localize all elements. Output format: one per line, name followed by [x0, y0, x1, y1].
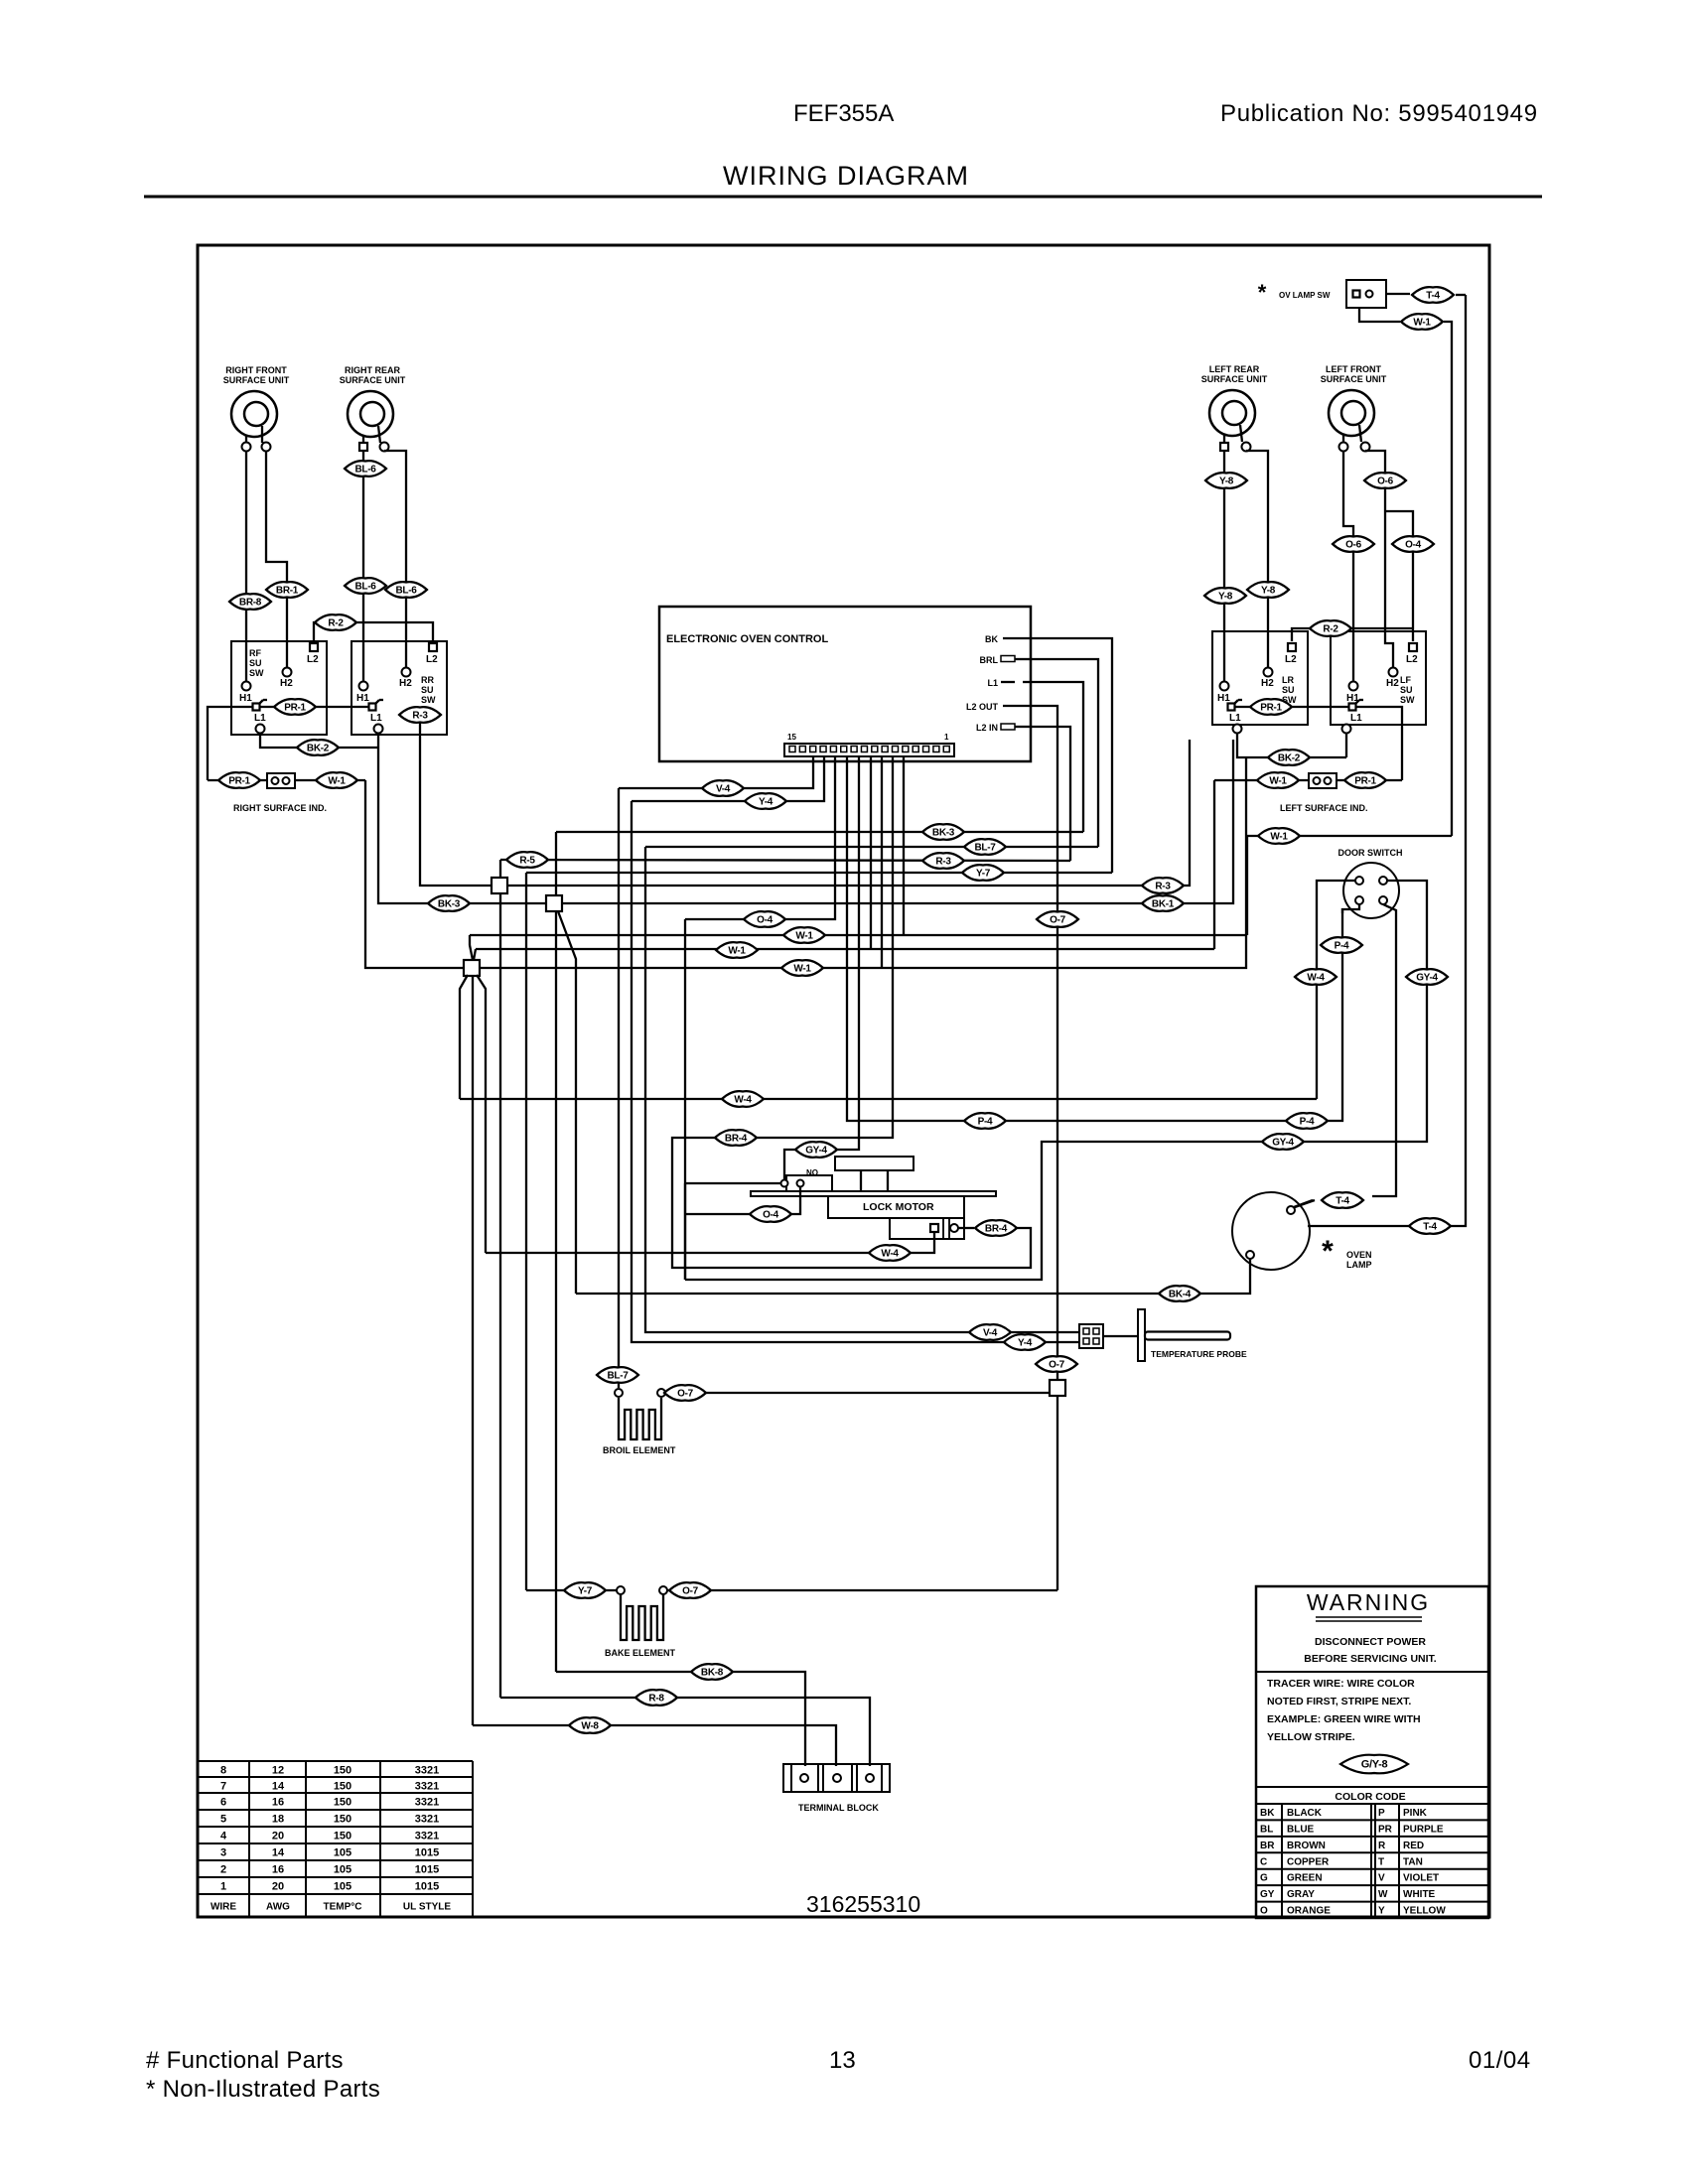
- svg-text:L1: L1: [254, 713, 266, 724]
- svg-text:T-4: T-4: [1426, 291, 1440, 302]
- svg-text:BK-3: BK-3: [932, 828, 955, 839]
- svg-text:L1: L1: [1229, 713, 1241, 724]
- svg-text:RIGHT REAR: RIGHT REAR: [345, 365, 401, 375]
- svg-text:T-4: T-4: [1336, 1196, 1349, 1207]
- svg-text:BEFORE SERVICING UNIT.: BEFORE SERVICING UNIT.: [1304, 1653, 1436, 1665]
- svg-text:RIGHT FRONT: RIGHT FRONT: [225, 365, 287, 375]
- svg-text:G: G: [1260, 1873, 1268, 1884]
- svg-text:L2: L2: [307, 654, 319, 665]
- svg-text:Y-8: Y-8: [1261, 586, 1276, 597]
- svg-text:BK-3: BK-3: [438, 899, 461, 910]
- svg-text:BROWN: BROWN: [1287, 1841, 1326, 1851]
- svg-text:GY-4: GY-4: [805, 1146, 827, 1157]
- svg-text:FEF355A: FEF355A: [793, 100, 894, 127]
- svg-text:ORANGE: ORANGE: [1287, 1906, 1331, 1917]
- svg-text:T: T: [1378, 1856, 1384, 1867]
- svg-text:RF: RF: [249, 648, 261, 658]
- svg-text:COPPER: COPPER: [1287, 1856, 1330, 1867]
- svg-text:*: *: [1322, 1235, 1334, 1268]
- svg-text:V: V: [1378, 1873, 1385, 1884]
- svg-text:150: 150: [334, 1797, 352, 1809]
- svg-text:BL-6: BL-6: [354, 465, 376, 476]
- svg-text:Y: Y: [1378, 1906, 1385, 1917]
- svg-text:PURPLE: PURPLE: [1403, 1824, 1444, 1835]
- svg-text:NO: NO: [806, 1168, 818, 1177]
- svg-text:* Non-Ilustrated Parts: * Non-Ilustrated Parts: [146, 2076, 380, 2103]
- svg-text:GY-4: GY-4: [1272, 1138, 1294, 1149]
- svg-text:W-1: W-1: [728, 946, 746, 957]
- svg-text:LEFT FRONT: LEFT FRONT: [1326, 364, 1381, 374]
- svg-text:BR-8: BR-8: [239, 598, 262, 609]
- svg-text:W-1: W-1: [1413, 318, 1431, 329]
- svg-text:Y-7: Y-7: [578, 1586, 593, 1597]
- svg-text:H2: H2: [1261, 678, 1274, 689]
- svg-text:LF: LF: [1400, 675, 1411, 685]
- svg-text:Y-8: Y-8: [1219, 477, 1234, 487]
- svg-text:YELLOW: YELLOW: [1403, 1906, 1446, 1917]
- svg-text:W-1: W-1: [1270, 832, 1288, 843]
- svg-text:TERMINAL BLOCK: TERMINAL BLOCK: [798, 1803, 879, 1813]
- svg-text:Y-4: Y-4: [759, 797, 774, 808]
- svg-text:H2: H2: [280, 678, 293, 689]
- svg-text:6: 6: [220, 1797, 226, 1809]
- svg-text:1: 1: [220, 1881, 226, 1893]
- svg-text:O-7: O-7: [677, 1389, 694, 1400]
- svg-text:R-3: R-3: [1155, 882, 1171, 892]
- svg-text:L2 IN: L2 IN: [976, 723, 998, 733]
- svg-text:13: 13: [829, 2047, 856, 2074]
- svg-text:SW: SW: [421, 695, 436, 705]
- svg-text:105: 105: [334, 1881, 352, 1893]
- svg-text:L2 OUT: L2 OUT: [966, 702, 999, 712]
- svg-text:C: C: [1260, 1856, 1267, 1867]
- svg-text:L1: L1: [370, 713, 382, 724]
- svg-text:W-4: W-4: [1307, 973, 1325, 984]
- svg-text:14: 14: [272, 1847, 285, 1859]
- svg-text:GREEN: GREEN: [1287, 1873, 1323, 1884]
- svg-text:SU: SU: [421, 685, 434, 695]
- svg-text:GRAY: GRAY: [1287, 1889, 1315, 1900]
- svg-text:L2: L2: [426, 654, 438, 665]
- svg-text:3321: 3321: [415, 1814, 439, 1826]
- svg-text:V-4: V-4: [983, 1328, 998, 1339]
- svg-text:R-2: R-2: [328, 618, 344, 629]
- svg-text:LEFT SURFACE IND.: LEFT SURFACE IND.: [1280, 803, 1368, 813]
- svg-text:20: 20: [272, 1831, 284, 1843]
- svg-text:PINK: PINK: [1403, 1808, 1428, 1819]
- svg-text:PR-1: PR-1: [284, 703, 306, 714]
- svg-text:BLUE: BLUE: [1287, 1824, 1315, 1835]
- svg-text:W-1: W-1: [1269, 776, 1287, 787]
- svg-text:SU: SU: [249, 658, 262, 668]
- svg-text:150: 150: [334, 1765, 352, 1777]
- svg-text:BL-7: BL-7: [974, 843, 996, 854]
- svg-text:Y-8: Y-8: [1218, 592, 1233, 603]
- svg-text:BR-4: BR-4: [985, 1224, 1008, 1235]
- svg-text:SW: SW: [249, 668, 264, 678]
- svg-text:Publication No: 5995401949: Publication No: 5995401949: [1220, 100, 1538, 127]
- svg-text:RED: RED: [1403, 1841, 1424, 1851]
- svg-text:BK-1: BK-1: [1152, 899, 1175, 910]
- svg-text:3321: 3321: [415, 1797, 439, 1809]
- svg-text:TEMPERATURE PROBE: TEMPERATURE PROBE: [1151, 1349, 1247, 1359]
- svg-text:150: 150: [334, 1781, 352, 1793]
- svg-text:O-7: O-7: [682, 1586, 699, 1597]
- svg-text:P-4: P-4: [1300, 1117, 1315, 1128]
- svg-text:PR-1: PR-1: [228, 776, 250, 787]
- svg-text:BK: BK: [985, 634, 998, 644]
- svg-text:H1: H1: [356, 693, 369, 704]
- svg-text:V-4: V-4: [716, 784, 731, 795]
- svg-text:150: 150: [334, 1814, 352, 1826]
- svg-text:BL: BL: [1260, 1824, 1273, 1835]
- svg-text:W-1: W-1: [793, 964, 811, 975]
- svg-text:SU: SU: [1282, 685, 1295, 695]
- svg-text:W-1: W-1: [328, 776, 346, 787]
- svg-text:SW: SW: [1400, 695, 1415, 705]
- svg-text:BK-8: BK-8: [701, 1668, 724, 1679]
- svg-text:BR-4: BR-4: [725, 1134, 748, 1145]
- svg-text:3: 3: [220, 1847, 226, 1859]
- svg-text:NOTED FIRST, STRIPE NEXT.: NOTED FIRST, STRIPE NEXT.: [1267, 1696, 1411, 1707]
- svg-text:BK-2: BK-2: [1278, 753, 1301, 764]
- svg-text:TAN: TAN: [1403, 1856, 1423, 1867]
- svg-text:14: 14: [272, 1781, 285, 1793]
- svg-text:UL STYLE: UL STYLE: [403, 1902, 451, 1913]
- svg-text:BL-6: BL-6: [395, 586, 417, 597]
- svg-text:1015: 1015: [415, 1847, 439, 1859]
- svg-text:105: 105: [334, 1864, 352, 1876]
- svg-text:WARNING: WARNING: [1307, 1589, 1430, 1615]
- svg-text:Y-7: Y-7: [976, 869, 991, 880]
- svg-text:R: R: [1378, 1841, 1386, 1851]
- svg-text:BR-1: BR-1: [276, 586, 299, 597]
- svg-text:TRACER WIRE: WIRE COLOR: TRACER WIRE: WIRE COLOR: [1267, 1678, 1415, 1690]
- svg-text:R-8: R-8: [648, 1694, 664, 1705]
- svg-text:YELLOW STRIPE.: YELLOW STRIPE.: [1267, 1731, 1355, 1743]
- svg-text:LR: LR: [1282, 675, 1294, 685]
- svg-text:L2: L2: [1406, 654, 1418, 665]
- svg-text:EXAMPLE: GREEN WIRE WITH: EXAMPLE: GREEN WIRE WITH: [1267, 1713, 1421, 1725]
- svg-text:R-2: R-2: [1323, 624, 1338, 635]
- svg-text:DISCONNECT POWER: DISCONNECT POWER: [1315, 1636, 1426, 1648]
- svg-text:BROIL ELEMENT: BROIL ELEMENT: [603, 1445, 676, 1455]
- svg-text:18: 18: [272, 1814, 284, 1826]
- svg-text:O-7: O-7: [1050, 915, 1066, 926]
- svg-text:PR-1: PR-1: [1260, 703, 1282, 714]
- svg-text:1015: 1015: [415, 1881, 439, 1893]
- svg-text:BRL: BRL: [980, 655, 999, 665]
- svg-text:H1: H1: [239, 693, 252, 704]
- svg-text:OV LAMP SW: OV LAMP SW: [1279, 291, 1331, 300]
- svg-text:150: 150: [334, 1831, 352, 1843]
- svg-text:R-3: R-3: [412, 711, 428, 722]
- svg-text:8: 8: [220, 1765, 226, 1777]
- svg-text:SURFACE UNIT: SURFACE UNIT: [1201, 374, 1268, 384]
- svg-text:DOOR SWITCH: DOOR SWITCH: [1338, 848, 1403, 858]
- svg-text:2: 2: [220, 1864, 226, 1876]
- svg-text:# Functional Parts: # Functional Parts: [146, 2047, 344, 2074]
- svg-text:L1: L1: [1350, 713, 1362, 724]
- svg-text:12: 12: [272, 1765, 284, 1777]
- svg-text:20: 20: [272, 1881, 284, 1893]
- svg-text:RR: RR: [421, 675, 434, 685]
- svg-text:*: *: [1258, 280, 1267, 305]
- svg-text:W-4: W-4: [734, 1095, 752, 1106]
- svg-text:SURFACE UNIT: SURFACE UNIT: [1321, 374, 1387, 384]
- svg-text:GY-4: GY-4: [1416, 973, 1438, 984]
- svg-text:P-4: P-4: [978, 1117, 993, 1128]
- svg-text:O-4: O-4: [1405, 540, 1422, 551]
- svg-text:LEFT REAR: LEFT REAR: [1209, 364, 1260, 374]
- svg-text:O-6: O-6: [1377, 477, 1394, 487]
- svg-text:7: 7: [220, 1781, 226, 1793]
- svg-text:L1: L1: [987, 678, 998, 688]
- svg-text:3321: 3321: [415, 1781, 439, 1793]
- svg-text:O-6: O-6: [1345, 540, 1362, 551]
- svg-text:COLOR CODE: COLOR CODE: [1335, 1791, 1405, 1803]
- svg-text:H2: H2: [1386, 678, 1399, 689]
- svg-text:LOCK MOTOR: LOCK MOTOR: [863, 1201, 934, 1213]
- svg-text:O: O: [1260, 1906, 1268, 1917]
- svg-text:4: 4: [220, 1831, 227, 1843]
- svg-text:3321: 3321: [415, 1765, 439, 1777]
- svg-text:H1: H1: [1217, 693, 1230, 704]
- svg-text:16: 16: [272, 1864, 284, 1876]
- svg-text:PR-1: PR-1: [1354, 776, 1376, 787]
- svg-text:316255310: 316255310: [806, 1891, 920, 1917]
- svg-text:1015: 1015: [415, 1864, 439, 1876]
- svg-text:OVEN: OVEN: [1346, 1250, 1372, 1260]
- svg-text:SURFACE UNIT: SURFACE UNIT: [340, 375, 406, 385]
- svg-text:O-4: O-4: [763, 1210, 779, 1221]
- svg-text:BL-7: BL-7: [607, 1371, 629, 1382]
- svg-text:T-4: T-4: [1423, 1222, 1437, 1233]
- svg-text:P-4: P-4: [1335, 941, 1349, 952]
- svg-text:01/04: 01/04: [1469, 2047, 1531, 2074]
- svg-text:SU: SU: [1400, 685, 1413, 695]
- svg-text:O-7: O-7: [1049, 1360, 1065, 1371]
- svg-text:BK-4: BK-4: [1169, 1290, 1192, 1300]
- svg-text:WHITE: WHITE: [1403, 1889, 1436, 1900]
- svg-text:RIGHT SURFACE IND.: RIGHT SURFACE IND.: [233, 803, 327, 813]
- svg-text:VIOLET: VIOLET: [1403, 1873, 1439, 1884]
- svg-text:W-4: W-4: [881, 1249, 899, 1260]
- svg-text:WIRE: WIRE: [211, 1902, 236, 1913]
- svg-text:1: 1: [944, 733, 949, 742]
- svg-text:BR: BR: [1260, 1841, 1275, 1851]
- svg-text:Y-4: Y-4: [1018, 1338, 1033, 1349]
- svg-text:G/Y-8: G/Y-8: [1361, 1759, 1388, 1771]
- svg-text:SURFACE UNIT: SURFACE UNIT: [223, 375, 290, 385]
- svg-text:3321: 3321: [415, 1831, 439, 1843]
- svg-text:105: 105: [334, 1847, 352, 1859]
- svg-text:BLACK: BLACK: [1287, 1808, 1323, 1819]
- svg-text:P: P: [1378, 1808, 1385, 1819]
- svg-text:L2: L2: [1285, 654, 1297, 665]
- svg-text:WIRING DIAGRAM: WIRING DIAGRAM: [723, 161, 969, 191]
- svg-text:BAKE ELEMENT: BAKE ELEMENT: [605, 1648, 676, 1658]
- svg-text:TEMP°C: TEMP°C: [324, 1902, 362, 1913]
- svg-text:ELECTRONIC OVEN CONTROL: ELECTRONIC OVEN CONTROL: [666, 633, 828, 645]
- svg-text:5: 5: [220, 1814, 226, 1826]
- svg-text:W-1: W-1: [795, 931, 813, 942]
- svg-text:BK-2: BK-2: [307, 744, 330, 754]
- svg-text:H2: H2: [399, 678, 412, 689]
- svg-text:GY: GY: [1260, 1889, 1275, 1900]
- svg-text:15: 15: [787, 733, 796, 742]
- svg-text:O-4: O-4: [757, 915, 774, 926]
- svg-text:PR: PR: [1378, 1824, 1393, 1835]
- svg-text:R-5: R-5: [519, 856, 535, 867]
- svg-text:R-3: R-3: [935, 857, 951, 868]
- svg-text:W: W: [1378, 1889, 1388, 1900]
- svg-text:BL-6: BL-6: [354, 582, 376, 593]
- svg-text:W-8: W-8: [581, 1721, 599, 1732]
- svg-text:BK: BK: [1260, 1808, 1275, 1819]
- svg-text:16: 16: [272, 1797, 284, 1809]
- svg-text:AWG: AWG: [266, 1902, 290, 1913]
- svg-text:LAMP: LAMP: [1346, 1260, 1372, 1270]
